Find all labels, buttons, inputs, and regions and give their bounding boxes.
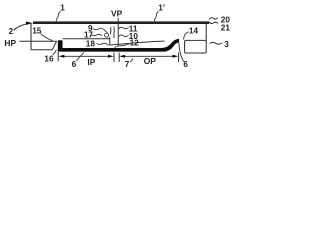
leader of 2 bbox=[14, 24, 27, 30]
leader of 1' bbox=[154, 12, 158, 22]
arrowhead of 2 bbox=[26, 22, 33, 25]
dimension line OP segment bbox=[125, 55, 173, 57]
svg-text:6: 6 bbox=[72, 60, 77, 69]
leader of 16 bbox=[53, 50, 57, 55]
leader of 18 bbox=[97, 43, 109, 45]
inner thin line right (line B) bbox=[110, 41, 165, 45]
svg-text:1: 1 bbox=[60, 4, 65, 13]
knot at 17 tip bbox=[105, 33, 109, 37]
foil 6 (thick black profile) bbox=[58, 39, 179, 52]
leader of 10 bbox=[119, 35, 129, 37]
leader of 3 bbox=[210, 42, 222, 44]
tick right of VP bbox=[118, 53, 120, 62]
IP left arrow bbox=[59, 55, 65, 58]
leader of 6 right bbox=[179, 43, 184, 62]
crumpled foil edge at VP bbox=[113, 27, 116, 39]
top substrate bar 1/1' bbox=[33, 21, 209, 24]
inner thin line left (line A) bbox=[63, 38, 110, 40]
svg-text:OP: OP bbox=[144, 56, 157, 66]
leader of 17 bbox=[91, 34, 102, 35]
svg-text:18: 18 bbox=[86, 39, 96, 48]
dimension line IP segment bbox=[64, 55, 108, 57]
break squiggle to 20 bbox=[209, 18, 218, 20]
svg-text:2: 2 bbox=[9, 27, 14, 36]
tick left of VP bbox=[113, 53, 115, 62]
svg-text:16: 16 bbox=[44, 54, 54, 63]
leader of 7 bbox=[130, 58, 133, 62]
left vertical edge bbox=[30, 24, 32, 50]
VP center line bbox=[117, 18, 119, 46]
short vertical stroke at overlap bbox=[109, 37, 111, 45]
leader of 12 bbox=[115, 44, 130, 48]
leader of 9 bbox=[93, 28, 108, 32]
svg-text:IP: IP bbox=[87, 57, 95, 67]
IP right arrow bbox=[108, 55, 114, 58]
shelf slanted edge bbox=[52, 41, 56, 50]
shelf bottom edge bbox=[31, 49, 52, 51]
leader of 11 bbox=[119, 27, 129, 29]
svg-text:21: 21 bbox=[221, 24, 231, 33]
leader of 1 bbox=[56, 11, 60, 21]
tick at foil end bbox=[178, 52, 180, 62]
crumpled foil edge left bbox=[109, 27, 112, 34]
OP right arrow bbox=[173, 55, 179, 58]
svg-text:3: 3 bbox=[224, 40, 229, 49]
svg-text:HP: HP bbox=[4, 38, 16, 48]
right box (element 3 housing) bbox=[185, 40, 207, 53]
svg-text:7: 7 bbox=[125, 60, 130, 69]
OP left arrow bbox=[119, 55, 125, 58]
leader of 14 bbox=[184, 32, 189, 40]
break squiggle to 21 bbox=[209, 22, 218, 24]
HP line and shelf top edge bbox=[20, 40, 57, 42]
svg-text:VP: VP bbox=[111, 8, 123, 18]
leader of 15 bbox=[40, 34, 52, 41]
svg-text:1′: 1′ bbox=[158, 3, 165, 12]
tick at lip bbox=[57, 52, 59, 61]
svg-text:12: 12 bbox=[130, 39, 140, 48]
right vertical edge above box bbox=[205, 24, 207, 41]
svg-text:14: 14 bbox=[189, 27, 199, 36]
leader of 6 left bbox=[76, 53, 83, 61]
